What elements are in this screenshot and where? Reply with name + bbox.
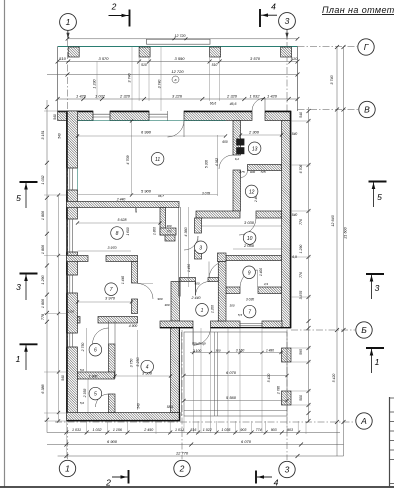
svg-text:600: 600: [222, 140, 228, 144]
svg-text:5: 5: [16, 193, 21, 203]
svg-text:540: 540: [137, 403, 141, 409]
svg-text:1 156: 1 156: [113, 428, 122, 432]
svg-text:3: 3: [375, 283, 380, 293]
svg-text:Крыльцо: Крыльцо: [192, 342, 206, 346]
svg-text:21 600: 21 600: [344, 226, 348, 239]
svg-text:2 450: 2 450: [143, 428, 153, 432]
svg-text:540: 540: [58, 133, 62, 139]
svg-text:2 440: 2 440: [191, 296, 201, 300]
svg-text:2 320: 2 320: [226, 93, 238, 98]
svg-text:675: 675: [239, 170, 244, 174]
svg-text:6,2: 6,2: [235, 157, 240, 161]
svg-text:9: 9: [248, 270, 251, 276]
svg-text:1 032: 1 032: [249, 93, 260, 98]
svg-text:2 358: 2 358: [83, 389, 87, 399]
svg-text:516: 516: [190, 428, 196, 432]
svg-text:1 806: 1 806: [41, 298, 45, 308]
svg-text:775: 775: [166, 230, 171, 234]
svg-text:510: 510: [141, 63, 147, 67]
svg-text:540: 540: [292, 132, 298, 136]
svg-text:1 806: 1 806: [41, 210, 45, 220]
svg-text:3 740: 3 740: [158, 80, 162, 89]
svg-text:2: 2: [105, 478, 111, 488]
svg-text:Б: Б: [361, 325, 367, 335]
svg-text:4: 4: [271, 2, 276, 12]
svg-text:12 720: 12 720: [171, 69, 184, 74]
svg-text:3 570: 3 570: [250, 56, 261, 61]
svg-text:300: 300: [229, 304, 234, 308]
svg-text:3 570: 3 570: [98, 56, 109, 61]
svg-text:66,7: 66,7: [158, 194, 164, 198]
svg-text:510: 510: [291, 56, 298, 61]
svg-text:1 032: 1 032: [95, 93, 106, 98]
svg-text:1 032: 1 032: [41, 175, 45, 184]
svg-text:4 360: 4 360: [184, 226, 188, 236]
svg-text:3 876: 3 876: [299, 291, 303, 300]
svg-text:1 032: 1 032: [93, 428, 102, 432]
svg-text:2 750: 2 750: [81, 343, 85, 353]
svg-text:4 900: 4 900: [129, 324, 138, 328]
svg-text:3 030: 3 030: [246, 297, 254, 301]
svg-text:1: 1: [65, 464, 70, 474]
svg-text:a: a: [175, 78, 177, 82]
svg-text:6 070: 6 070: [241, 439, 252, 444]
svg-text:776: 776: [299, 219, 303, 225]
svg-text:12: 12: [249, 189, 255, 195]
svg-text:540: 540: [292, 213, 298, 217]
svg-text:300: 300: [164, 303, 169, 307]
svg-text:4: 4: [274, 478, 279, 488]
svg-text:3 750: 3 750: [130, 359, 134, 368]
svg-text:540: 540: [53, 114, 57, 120]
svg-text:540: 540: [299, 112, 303, 118]
svg-text:5 300: 5 300: [205, 160, 209, 168]
svg-text:903: 903: [287, 428, 293, 432]
svg-text:6 070: 6 070: [226, 370, 237, 375]
svg-text:774: 774: [256, 428, 262, 432]
svg-text:3: 3: [285, 465, 290, 475]
svg-text:2 300: 2 300: [248, 130, 260, 135]
svg-text:5 628: 5 628: [118, 218, 127, 222]
svg-text:300: 300: [215, 349, 220, 353]
svg-text:725: 725: [260, 170, 265, 174]
svg-text:46,6: 46,6: [230, 102, 237, 106]
svg-text:1 400: 1 400: [259, 268, 263, 276]
svg-text:1 480: 1 480: [266, 349, 274, 353]
svg-text:1 420: 1 420: [76, 93, 87, 98]
svg-text:1 290: 1 290: [299, 245, 303, 254]
svg-text:903: 903: [271, 428, 277, 432]
svg-text:3 078: 3 078: [202, 191, 210, 195]
svg-text:6 386: 6 386: [41, 383, 45, 393]
svg-text:1 446: 1 446: [121, 276, 125, 284]
svg-text:4,9: 4,9: [264, 282, 269, 286]
svg-text:1 800: 1 800: [153, 227, 157, 235]
svg-text:540: 540: [61, 375, 65, 381]
svg-text:5,6: 5,6: [80, 401, 85, 405]
svg-text:1 490: 1 490: [187, 264, 191, 272]
svg-text:10: 10: [247, 236, 253, 242]
svg-text:2 440: 2 440: [116, 198, 126, 202]
svg-text:1 031: 1 031: [175, 428, 184, 432]
svg-text:3 590: 3 590: [174, 56, 185, 61]
svg-text:900: 900: [250, 170, 255, 174]
svg-text:300: 300: [134, 208, 138, 213]
svg-text:776: 776: [299, 272, 303, 278]
svg-text:План на отметке: План на отметке: [322, 5, 394, 15]
svg-text:5 560: 5 560: [226, 395, 237, 400]
svg-text:3 970: 3 970: [105, 296, 116, 301]
svg-text:3: 3: [16, 282, 21, 292]
svg-text:2 100: 2 100: [192, 349, 202, 353]
svg-text:778: 778: [41, 313, 45, 320]
svg-text:13: 13: [252, 146, 258, 152]
svg-text:5 420: 5 420: [267, 374, 271, 383]
svg-text:3 970: 3 970: [108, 246, 117, 250]
svg-text:3 160: 3 160: [236, 349, 245, 353]
svg-text:12 720: 12 720: [175, 34, 186, 38]
svg-text:1: 1: [375, 357, 380, 367]
svg-text:6 900: 6 900: [107, 439, 118, 444]
svg-text:3 740: 3 740: [128, 72, 132, 82]
svg-text:А: А: [360, 416, 367, 426]
svg-text:900: 900: [157, 297, 162, 301]
svg-text:1 035: 1 035: [221, 428, 230, 432]
svg-text:5 900: 5 900: [141, 189, 152, 194]
svg-text:4: 4: [146, 365, 149, 371]
svg-text:4 362: 4 362: [215, 158, 219, 166]
svg-text:2: 2: [179, 464, 185, 474]
svg-text:3 030: 3 030: [244, 220, 255, 225]
svg-text:66,6: 66,6: [210, 102, 217, 106]
svg-text:903: 903: [240, 428, 246, 432]
svg-text:1 022: 1 022: [203, 428, 212, 432]
svg-text:8: 8: [116, 231, 119, 237]
svg-text:1 420: 1 420: [267, 93, 278, 98]
svg-text:7: 7: [248, 310, 251, 316]
svg-text:5 250: 5 250: [136, 356, 140, 366]
svg-text:1: 1: [16, 354, 21, 364]
svg-text:5: 5: [94, 392, 97, 398]
svg-text:11: 11: [155, 157, 160, 163]
svg-text:500: 500: [299, 395, 303, 401]
svg-text:1 031: 1 031: [72, 428, 81, 432]
svg-text:510: 510: [212, 63, 218, 67]
svg-text:3 226: 3 226: [172, 93, 183, 98]
svg-text:4 709: 4 709: [126, 155, 130, 164]
svg-text:1 200: 1 200: [211, 305, 215, 313]
svg-text:1: 1: [66, 17, 71, 27]
svg-text:3 151: 3 151: [41, 130, 45, 139]
svg-text:3 740: 3 740: [330, 74, 334, 84]
svg-text:595: 595: [299, 349, 303, 355]
svg-text:7: 7: [110, 287, 113, 293]
svg-text:3: 3: [285, 16, 290, 26]
svg-text:510: 510: [59, 56, 66, 61]
svg-text:6,9: 6,9: [292, 255, 297, 259]
svg-text:6 990: 6 990: [141, 130, 152, 135]
svg-text:5,6: 5,6: [80, 368, 85, 372]
svg-text:2 320: 2 320: [119, 93, 131, 98]
svg-text:2: 2: [111, 2, 117, 12]
svg-text:5,5: 5,5: [238, 313, 243, 317]
svg-text:900: 900: [194, 281, 199, 285]
svg-text:1 230: 1 230: [93, 78, 97, 88]
svg-text:3: 3: [199, 245, 202, 251]
svg-text:1 600: 1 600: [126, 227, 130, 235]
svg-text:5: 5: [377, 192, 382, 202]
svg-text:1: 1: [201, 308, 204, 314]
svg-text:1 290: 1 290: [41, 274, 45, 284]
svg-text:6 706: 6 706: [299, 165, 303, 174]
svg-text:12 640: 12 640: [331, 214, 335, 226]
svg-text:В: В: [364, 105, 370, 115]
svg-text:6: 6: [94, 348, 97, 354]
svg-text:13,0: 13,0: [68, 310, 74, 314]
svg-text:300: 300: [166, 224, 171, 228]
svg-text:58,6: 58,6: [167, 405, 174, 409]
svg-text:2 780: 2 780: [277, 386, 281, 395]
svg-text:1 900: 1 900: [89, 375, 98, 379]
svg-text:12 770: 12 770: [176, 450, 189, 455]
svg-text:5 420: 5 420: [332, 374, 336, 383]
svg-text:1 806: 1 806: [41, 244, 45, 254]
